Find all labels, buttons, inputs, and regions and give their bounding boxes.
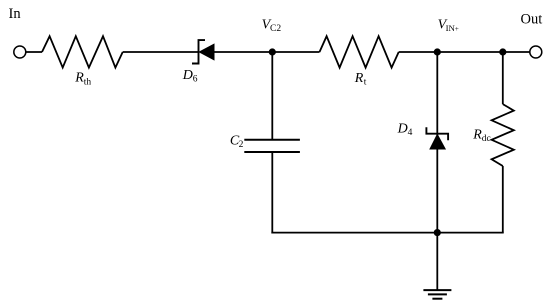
svg-text:IN+: IN+ <box>446 23 459 33</box>
wire D6 to node V_C2 <box>214 51 320 53</box>
terminal Out <box>530 46 542 58</box>
wire bottom rail <box>271 232 503 234</box>
svg-text:In: In <box>9 6 22 22</box>
resistor R_th <box>42 36 123 67</box>
label D4 <box>397 122 413 139</box>
resistor R_t <box>320 36 399 67</box>
svg-text:4: 4 <box>408 128 413 138</box>
label R_t <box>354 71 367 88</box>
node bottom junction <box>434 229 441 236</box>
label In <box>9 6 22 22</box>
svg-text:R: R <box>74 71 84 86</box>
label D6 <box>182 68 198 85</box>
wire In terminal to R_th <box>26 51 42 53</box>
wire Out node down to R_dc <box>502 52 504 104</box>
svg-text:dc: dc <box>482 134 491 144</box>
svg-text:Out: Out <box>521 12 543 28</box>
node Out junction <box>499 48 506 55</box>
svg-text:D: D <box>397 122 408 137</box>
diode D4 (zener, cathode bar with hooks) <box>426 127 448 149</box>
svg-text:t: t <box>364 78 367 88</box>
resistor R_dc <box>492 104 514 166</box>
terminal In <box>14 46 26 58</box>
wire node V_C2 down to C2 <box>271 52 273 140</box>
label R_dc <box>472 128 490 145</box>
label V_C2 <box>262 17 282 34</box>
capacitor C2 <box>244 140 300 152</box>
wire R_t to Out terminal <box>399 51 530 53</box>
label C2 <box>230 133 244 150</box>
node V_IN+ junction <box>434 48 441 55</box>
svg-text:R: R <box>354 71 364 86</box>
node V_C2 junction <box>269 48 276 55</box>
svg-text:R: R <box>472 128 482 143</box>
wire node V_IN+ down to D4 <box>436 52 438 135</box>
wire R_th to D6 <box>123 51 199 53</box>
svg-text:D: D <box>182 68 193 83</box>
diode D6 (zener, cathode bar with hooks) <box>192 40 214 63</box>
svg-text:2: 2 <box>239 140 244 150</box>
wire bottom junction to ground <box>436 233 438 291</box>
label Out <box>521 12 543 28</box>
wire C2 to bottom rail <box>271 152 273 234</box>
ground <box>423 290 451 299</box>
svg-text:th: th <box>84 77 92 87</box>
wire R_dc to bottom rail <box>502 166 504 233</box>
wire D4 to bottom junction <box>436 149 438 234</box>
label R_th <box>74 71 91 88</box>
svg-text:6: 6 <box>193 75 198 85</box>
svg-text:C2: C2 <box>270 24 281 34</box>
label V_IN+ <box>438 18 459 33</box>
